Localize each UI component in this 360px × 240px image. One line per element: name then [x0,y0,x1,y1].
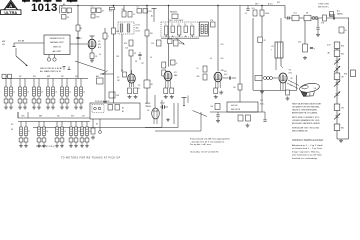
ground eye2 [216,119,220,123]
svg-text:0.01: 0.01 [293,13,296,15]
resistor R18 [170,88,174,94]
resistor R13 [143,9,152,14]
svg-text:Afbrydende på 1 — 2 og 3. Væ: Afbrydende på 1 — 2 og 3. Værdi [292,144,323,147]
resistor R28 [238,115,243,121]
switch pointer [75,61,105,71]
resistor R46 [128,88,132,94]
wire det drop [261,6,263,14]
svg-text:UDGANG FOR EKSTRA HØJ-: UDGANG FOR EKSTRA HØJ- [292,106,320,109]
svg-text:SW: SW [33,76,36,78]
V5 pins [281,83,286,91]
rail left corner [59,6,61,14]
svg-text:C2: C2 [67,13,69,15]
svg-text:OMSKIFTERDIAGRAM.: OMSKIFTERDIAGRAM. [292,139,324,142]
svg-text:R8: R8 [122,9,124,11]
svg-text:R32: R32 [341,127,344,129]
wire OPT sec [275,58,277,70]
jack symbol [182,98,187,107]
svg-text:465: 465 [136,28,139,30]
ground out [260,90,264,94]
svg-text:bringer i signaturen. Tillæ: bringer i signaturen. Tillæ elas- [292,150,320,153]
resistor R5 [90,53,98,59]
svg-text:C19: C19 [151,43,154,45]
capacitor C7 [158,39,172,44]
wire grid link [100,73,114,75]
svg-text:C8: C8 [117,77,119,79]
tube V5 [279,73,287,83]
resistor R1 [61,6,66,12]
wire aerial drop [77,6,79,79]
callout line [193,111,208,117]
speaker leads [287,80,299,89]
resistor R7 [112,28,120,34]
svg-text:.05: .05 [210,58,212,60]
svg-text:V2: V2 [138,85,140,87]
resistor R6 [109,7,115,12]
mains right rail [348,18,350,140]
label V4 [224,71,227,76]
svg-text:S.G.: S.G. [109,11,113,13]
grid chain [255,76,278,81]
output unit edge [291,75,297,91]
wire HT out drop [252,18,254,90]
grid caps V2 [121,70,127,77]
svg-text:LP1: LP1 [341,76,344,78]
ground smooth [166,118,169,122]
svg-text:KREDSLØB VIST I STILLING: KREDSLØB VIST I STILLING [292,128,319,130]
grid resistor pair [162,62,166,76]
svg-text:L10: L10 [78,131,81,133]
svg-text:LW: LW [2,44,5,46]
wire AVC line [104,28,106,100]
svg-text:MW: MW [2,41,5,43]
svg-text:C17: C17 [141,63,144,65]
wire trim stub [153,14,155,22]
junction dots on HT rail [77,5,262,6]
label MW/LW left [2,41,5,46]
svg-text:LW: LW [19,76,22,78]
padder C15 [170,11,178,19]
svg-text:MW LW: MW LW [53,46,62,48]
IFT1 primary [120,24,123,32]
tone text [318,4,330,9]
wire IFT1 feed [123,6,125,12]
wire pack bottom [161,38,199,40]
svg-text:.1: .1 [108,36,109,38]
svg-text:S6: S6 [96,124,98,126]
pickup dashed box [92,105,104,113]
resistor R24 [304,13,311,21]
resistor R2 [67,8,72,15]
capacitor C13 [216,112,219,119]
note text B2 [40,70,62,73]
V2 pins [130,83,134,87]
drop3 labels [210,44,225,72]
svg-text:FERRITE ROD: FERRITE ROD [50,38,65,40]
OPT box [271,42,283,58]
svg-text:R3: R3 [67,17,69,19]
svg-text:MW: MW [39,116,42,118]
svg-text:50: 50 [345,30,347,32]
ground V2a [128,95,132,99]
svg-text:B2: B2 [122,111,124,113]
coupling coil L3 [47,55,56,62]
svg-text:R33: R33 [344,74,347,76]
svg-text:tiske modstande av på GS: tiske modstande av på GS Værk. [292,154,322,157]
chassis line 1 [33,127,162,129]
note text B1 [40,67,63,70]
ground V4b [219,91,223,95]
svg-text:PICK-UP MOTOR: PICK-UP MOTOR [95,101,110,103]
label V6 [147,110,149,112]
svg-text:NETS DREJ I OMSKIFT STIL-: NETS DREJ I OMSKIFT STIL- [292,117,320,119]
smoothing cap C14 [160,103,168,110]
svg-text:R31: R31 [341,53,344,55]
scale lamps (arrows) [334,59,340,120]
svg-text:(OSCILLATOR COILS): (OSCILLATOR COILS) [36,145,55,148]
resistor R42 [109,92,120,98]
svg-text:Der og diat. i udfl. mas.: Der og diat. i udfl. mas. [190,143,212,146]
label PU [260,100,265,106]
HT rail (top) [60,5,286,7]
svg-text:R13: R13 [149,11,152,13]
coil pack windings [165,24,194,37]
AF coil [312,17,318,20]
wire pu drop [263,112,266,121]
svg-text:Gramudtac: 50 mV ved 400 Hz: Gramudtac: 50 mV ved 400 Hz [190,151,219,154]
svg-text:L11: L11 [89,131,92,133]
wire screen drop [113,6,115,104]
wire HT drop3 [217,6,219,72]
wire HT drop2 [146,6,148,104]
V3 pins [166,80,170,88]
svg-text:VOL: VOL [252,8,255,10]
label V3 [174,72,177,77]
wire osc to V3grid [168,37,170,67]
svg-text:TALER 4 OHM IMPEDANS.: TALER 4 OHM IMPEDANS. [292,109,318,112]
lamp labels left [327,45,331,55]
resistor R50 [91,14,100,19]
svg-text:V6: V6 [147,110,149,112]
svg-text:250: 250 [298,42,301,44]
wire HT-to-AF drop [284,6,286,19]
V4 pins [216,81,220,88]
magic eye box [227,102,258,112]
wire V1 cathode [91,49,93,53]
resistor R19 [214,88,218,94]
svg-text:Frekvensbånd ved 468 mVs udgan: Frekvensbånd ved 468 mVs udgangseffekt [190,138,230,141]
capacitor C4 [76,37,81,40]
IFT1 secondary [127,24,130,32]
svg-text:L4: L4 [55,92,57,94]
ground V2b [134,95,138,99]
loudspeaker [299,82,320,96]
bank1 left contacts [2,74,12,78]
svg-text:AFBRYDER PÅ VOLUMEN.: AFBRYDER PÅ VOLUMEN. [292,112,318,115]
svg-text:I.F.T.1: I.F.T.1 [136,25,141,27]
svg-text:R30: R30 [341,45,344,47]
strip labels [99,48,152,66]
svg-text:TONE CORR.: TONE CORR. [318,4,330,6]
ground af2 [316,33,320,37]
wire smooth1 [161,100,163,127]
cathode resistor [286,90,290,100]
label col [117,77,120,82]
wire rect top [145,95,155,108]
wire cathode rail [253,90,297,92]
svg-text:32+32: 32+32 [160,103,165,105]
svg-text:150: 150 [221,58,224,60]
svg-text:50: 50 [150,57,152,59]
motor terminal [99,119,102,133]
wire heater bus [145,127,178,129]
capacitor C11 [288,16,289,19]
svg-text:LW: LW [57,116,60,118]
svg-text:BRUG AF PLADESPILLEREN.: BRUG AF PLADESPILLEREN. [292,122,321,125]
resistor R49 [97,8,105,13]
label V2 [138,85,141,90]
resistor R4 [76,25,82,31]
coil pack dashed box [161,22,199,37]
IFT2 box [200,22,209,36]
bank2 label [11,124,13,131]
svg-text:av kontakte med 1 — 2 og 3: av kontakte med 1 — 2 og 3 mas. [292,147,323,150]
capacitor C12 [331,13,335,20]
capacitor C21 [310,47,315,50]
I.F. resistors [197,66,208,80]
resistor R3 [62,15,70,20]
resistor R29 [246,115,251,121]
tube V3 [164,71,172,81]
svg-text:1013: 1013 [31,2,58,14]
resistor R26 [298,42,308,53]
resistor R16 [210,20,215,27]
gram unit box [90,103,140,119]
wire motor drop [92,119,94,128]
svg-text:6A8: 6A8 [174,74,177,77]
gram text [95,101,124,113]
resistor R11 [129,50,137,56]
speaker note block [292,102,322,132]
svg-text:6Q7: 6Q7 [224,74,227,76]
svg-text:S3: S3 [11,124,13,126]
svg-text:ULTRA: ULTRA [4,11,17,15]
chassis line 2 [155,130,201,132]
svg-text:C4: C4 [80,38,82,40]
resistor R40 [103,33,109,39]
svg-text:250: 250 [221,44,224,46]
resistor R10 [124,40,133,46]
svg-text:T3: T3 [178,24,180,26]
svg-text:A.C.: A.C. [337,10,341,13]
svg-text:P.U.: P.U. [260,100,264,102]
wire smooth2 [173,103,175,124]
svg-text:HØJTTALER MED INDBYGGET: HØJTTALER MED INDBYGGET [292,102,322,105]
page background [0,0,360,161]
wire V1 anode [90,36,95,39]
svg-text:SEE NOTES B1 & B2 AT: SEE NOTES B1 & B2 AT [40,67,63,70]
IFT1 dashed box [118,22,134,34]
resistor R45 [174,40,182,46]
tube V1 [88,39,96,49]
heading omskifterdiagram [292,139,324,142]
wire avc drop [261,16,263,112]
svg-text:MELLEMBØLGE.: MELLEMBØLGE. [292,131,308,133]
label V1 [98,41,102,49]
wire OPT to V5 [281,58,283,68]
resistor R44 [151,40,161,46]
volume pot [252,8,258,16]
wire eye bottom [210,111,265,113]
svg-text:R10: R10 [124,43,127,45]
grid pair V3 [171,60,179,65]
note symbols [63,67,71,70]
label AE [63,3,66,6]
svg-text:L7: L7 [28,131,30,133]
svg-text:TRANS.: TRANS. [145,105,152,108]
label V5 [289,70,292,75]
svg-text:6V6: 6V6 [289,73,292,75]
svg-text:EXT AE: EXT AE [18,40,25,43]
resistor R27 [211,104,221,110]
svg-text:465: 465 [197,76,200,78]
svg-text:T4: T4 [184,24,186,26]
ground V3a [164,95,168,99]
svg-text:LP2: LP2 [341,107,344,109]
ground V3b [170,95,174,99]
tube V6 rectifier [152,108,160,119]
ground chain [339,139,343,143]
svg-text:MW: MW [47,76,50,78]
svg-text:400 500: 400 500 [231,105,238,107]
grid stopper [339,27,347,33]
wire eye drop [239,6,241,103]
capacitor C6 [138,52,141,60]
svg-text:R21: R21 [277,2,280,4]
resistor R8 [122,9,127,17]
ground eye [246,124,250,128]
terminal ext-aerial [13,43,16,47]
svg-text:6K8: 6K8 [179,43,182,45]
svg-text:B1: B1 [122,108,124,110]
V6 pins [154,119,157,124]
svg-text:Kredsløb vist i mellembølge: Kredsløb vist i mellembølge. [292,157,318,160]
svg-text:S4: S4 [11,129,13,131]
resistor R51 [233,84,242,90]
svg-text:SW: SW [71,116,74,118]
chassis vert 3 [187,96,189,104]
svg-text:0.1: 0.1 [99,54,101,56]
resistor R14 [145,30,154,36]
dropper resistors and lamps (boxes) [334,42,344,131]
ground motor [91,136,95,140]
wire V1 to box [70,43,87,45]
svg-text:MAINS: MAINS [337,13,343,16]
resistor R48 [91,6,96,13]
gram resistor [108,105,120,111]
svg-text:28: 28 [264,40,266,42]
switch S5 [102,71,107,75]
svg-text:A1: A1 [151,15,153,18]
chassis vert 1 [177,103,179,128]
switch note block [292,144,323,160]
svg-text:L2: L2 [27,92,29,94]
resistor R25 [321,15,327,25]
svg-text:R1: R1 [61,6,63,8]
resistor R23 [292,13,299,21]
svg-text:6K7: 6K7 [98,44,101,46]
resistor R17 [164,88,168,94]
ground V4a [214,95,218,99]
capacitor C10 [223,76,236,79]
wire V2 anode [131,70,133,74]
caption record player [61,156,121,159]
svg-text:L9: L9 [64,131,66,133]
svg-text:L8: L8 [46,131,48,133]
svg-text:SOC.: SOC. [260,104,265,106]
mains dropper [344,70,356,77]
svg-text:PADDER: PADDER [170,11,178,14]
coil pack label [169,19,184,22]
model number 1013 [31,2,58,14]
trimmer note [36,145,55,148]
resistor R43 [91,128,95,134]
svg-text:A.V.C.: A.V.C. [268,3,274,6]
wire bank link [17,112,19,118]
AF rail (top right) [285,17,349,19]
svg-text:C5: C5 [137,7,139,9]
svg-text:C1: C1 [91,6,93,8]
svg-text:ALL WAVE SWITCH S1: ALL WAVE SWITCH S1 [40,70,62,73]
svg-text:G1: G1 [121,70,123,72]
resistor R9 [128,12,135,18]
svg-text:– desuden 50 1,55 V over højtt: – desuden 50 1,55 V over højttaleren. [190,140,225,143]
svg-text:L5: L5 [69,92,71,94]
svg-text:8: 8 [314,49,315,51]
label det [255,2,280,6]
mains entry [330,10,344,17]
svg-text:SEE NOTE: SEE NOTE [231,109,241,111]
svg-text:T5: T5 [191,24,193,26]
resistor R20 [260,10,270,16]
resistor R15 [144,80,154,88]
ground af [303,56,307,60]
switch S1 arm [16,48,28,66]
label IFT1 [136,25,141,33]
ferrite aerial unit box [44,35,70,55]
ground V1 [90,59,94,63]
dropper chain wire [336,42,338,139]
resistor R41 [96,75,103,84]
svg-text:OSC. COIL PACK: OSC. COIL PACK [169,19,184,22]
switch S2 arm [176,38,185,45]
resistor R12 [137,7,142,14]
ground AVC [103,100,107,104]
svg-text:LW: LW [61,76,64,78]
svg-text:AERIAL UNIT: AERIAL UNIT [50,41,64,44]
svg-text:T1: T1 [165,24,167,26]
svg-text:C16: C16 [125,48,128,50]
wire bias [130,56,132,74]
wire af drop2 [316,18,319,33]
oscillator coil bank [18,112,92,148]
aerial coil bank [2,76,88,109]
tube V2 [128,74,136,83]
svg-text:AE UNIT: AE UNIT [53,50,62,53]
wire OPT feed [280,18,282,42]
svg-text:MAINS: MAINS [145,102,151,105]
aerial trim symbol [151,9,157,18]
